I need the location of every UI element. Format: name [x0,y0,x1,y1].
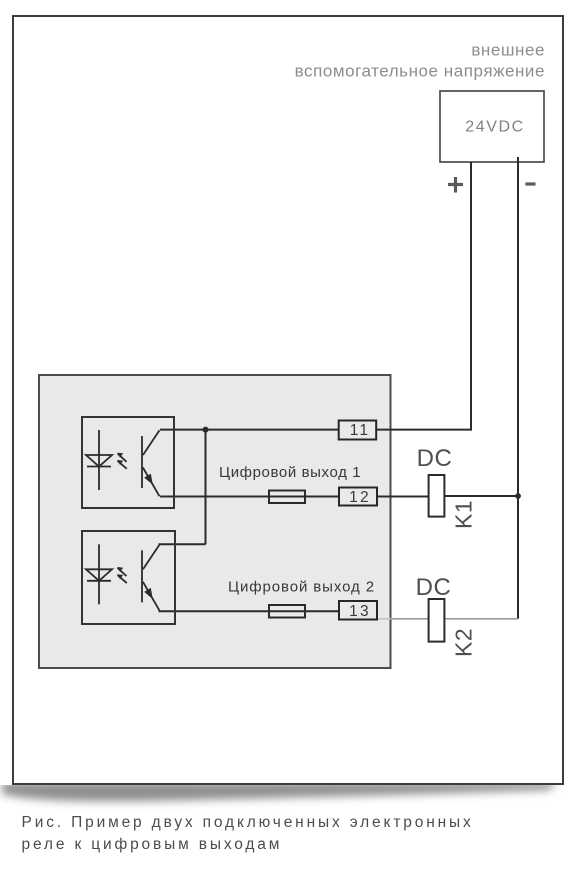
svg-text:K1: K1 [451,500,477,529]
svg-text:Рис. Пример двух подключенных: Рис. Пример двух подключенных электронны… [22,814,474,831]
svg-text:реле к цифровым выходам: реле к цифровым выходам [22,836,283,853]
svg-text:12: 12 [349,489,371,506]
svg-text:DC: DC [417,445,453,472]
svg-text:Цифровой выход 2: Цифровой выход 2 [228,578,375,595]
svg-text:вспомогательное напряжение: вспомогательное напряжение [295,62,545,81]
svg-text:DC: DC [416,574,452,601]
svg-text:11: 11 [350,422,371,439]
svg-text:внешнее: внешнее [471,40,545,59]
svg-text:Цифровой выход 1: Цифровой выход 1 [219,464,361,481]
svg-text:24VDC: 24VDC [465,119,525,136]
svg-text:13: 13 [349,603,371,620]
svg-text:K2: K2 [451,628,477,657]
